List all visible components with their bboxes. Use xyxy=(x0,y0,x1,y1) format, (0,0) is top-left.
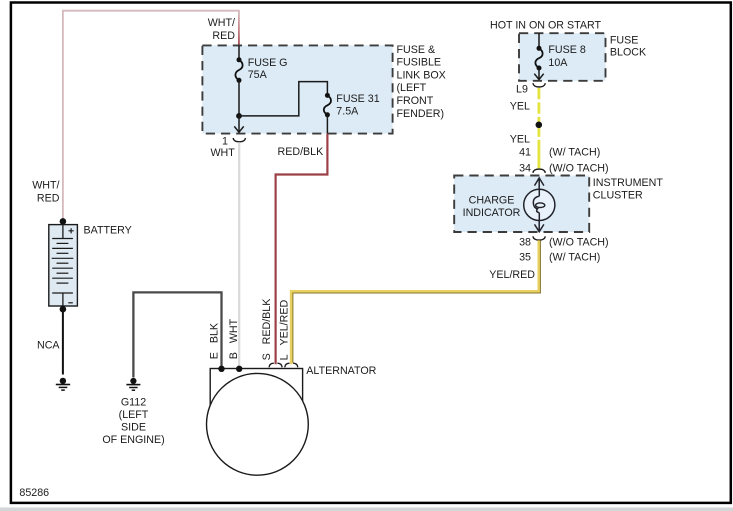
svg-text:35: 35 xyxy=(519,252,531,264)
label WHT/RED (battery) xyxy=(32,180,60,205)
svg-text:FUSE 31: FUSE 31 xyxy=(336,93,379,105)
svg-text:CHARGE: CHARGE xyxy=(469,194,515,206)
wire fuse 31 to box edge xyxy=(326,115,328,134)
svg-text:ALTERNATOR: ALTERNATOR xyxy=(306,365,376,377)
svg-text:BLOCK: BLOCK xyxy=(610,46,647,58)
svg-text:FUSE &: FUSE & xyxy=(397,44,436,56)
connector pin 38 cup xyxy=(533,236,545,240)
wire RED/BLK fuse 31 to alternator S xyxy=(276,134,328,365)
svg-text:LINK BOX: LINK BOX xyxy=(397,69,446,81)
ground symbol (battery) xyxy=(56,378,70,390)
svg-text:WHT: WHT xyxy=(210,147,235,159)
bottom gray strip xyxy=(0,508,733,511)
svg-text:RED: RED xyxy=(212,30,235,42)
label WHT/RED (top) xyxy=(208,17,236,42)
svg-text:INSTRUMENT: INSTRUMENT xyxy=(593,177,664,189)
connector L9 cup xyxy=(533,83,545,87)
svg-text:(W/ TACH): (W/ TACH) xyxy=(549,146,600,158)
wire G112 to alternator E xyxy=(133,292,221,377)
label INSTRUMENT CLUSTER xyxy=(593,177,664,202)
svg-text:OF ENGINE): OF ENGINE) xyxy=(102,434,164,446)
wire YEL splice to instrument cluster xyxy=(538,128,541,168)
terminal E node xyxy=(218,366,224,372)
svg-text:WHT/: WHT/ xyxy=(208,17,235,29)
svg-text:RED: RED xyxy=(37,192,60,204)
svg-text:75A: 75A xyxy=(248,69,268,81)
wire into fuse G xyxy=(238,46,240,60)
label CHARGE INDICATOR xyxy=(463,194,521,219)
svg-text:YEL: YEL xyxy=(510,101,530,113)
svg-text:L YEL/RED: L YEL/RED xyxy=(279,300,291,361)
junction node in fuse box xyxy=(236,113,242,119)
battery top node xyxy=(60,218,67,225)
svg-text:S RED/BLK: S RED/BLK xyxy=(261,298,273,361)
label FUSE G 75A xyxy=(248,57,288,81)
svg-text:41: 41 xyxy=(519,146,531,158)
wire YEL dashed L9 to splice xyxy=(538,88,541,122)
arrow into cluster (up) xyxy=(535,178,544,189)
svg-text:38: 38 xyxy=(519,237,531,249)
splice node on YEL xyxy=(536,122,543,129)
wire WHT/RED gradient segment entering fuse box xyxy=(238,12,240,46)
svg-text:85286: 85286 xyxy=(19,487,49,499)
svg-text:7.5A: 7.5A xyxy=(336,106,359,118)
instrument cluster box xyxy=(454,176,589,233)
label FUSE & FUSIBLE LINK BOX (LEFT FRONT FENDER) xyxy=(397,44,446,120)
arrow out of fuse block xyxy=(534,68,543,80)
svg-text:B WHT: B WHT xyxy=(228,318,240,359)
svg-text:(W/O TACH): (W/O TACH) xyxy=(549,237,609,249)
svg-text:FUSIBLE: FUSIBLE xyxy=(397,57,442,69)
svg-text:FRONT: FRONT xyxy=(397,95,434,107)
fuse G symbol xyxy=(235,57,242,83)
alternator rotor circle xyxy=(207,373,309,475)
svg-text:34: 34 xyxy=(519,162,531,174)
connector pin 1 cup xyxy=(233,138,245,142)
fuse & fusible link box xyxy=(202,45,392,133)
label FUSE BLOCK xyxy=(610,34,647,58)
svg-text:FUSE 8: FUSE 8 xyxy=(548,44,585,56)
svg-text:WHT/: WHT/ xyxy=(32,180,59,192)
wire WHT/RED battery to fuse box (pale pink) xyxy=(63,11,239,222)
label FUSE 8 10A xyxy=(548,44,585,69)
wire fuse G to junction xyxy=(238,80,240,116)
fuse 31 symbol xyxy=(324,93,331,117)
svg-text:1: 1 xyxy=(222,135,228,147)
svg-text:YEL: YEL xyxy=(510,134,530,146)
svg-text:RED/BLK: RED/BLK xyxy=(278,146,325,158)
svg-text:BATTERY: BATTERY xyxy=(84,224,132,236)
svg-text:L9: L9 xyxy=(516,84,528,96)
battery bottom node xyxy=(60,306,67,313)
wire junction to fuse 31 (step) xyxy=(239,82,327,116)
wire YEL/RED cluster to alternator L xyxy=(291,240,540,364)
svg-text:NCA: NCA xyxy=(37,339,60,351)
svg-text:HOT IN ON OR START: HOT IN ON OR START xyxy=(490,20,602,32)
label FUSE 31 7.5A xyxy=(336,93,379,118)
svg-text:(LEFT: (LEFT xyxy=(397,82,427,94)
svg-text:FUSE: FUSE xyxy=(610,34,639,46)
wire NCA battery to ground xyxy=(62,309,64,374)
svg-text:E BLK: E BLK xyxy=(209,322,221,359)
svg-text:10A: 10A xyxy=(548,57,568,69)
svg-text:CLUSTER: CLUSTER xyxy=(593,190,643,202)
fuse block box xyxy=(519,33,606,81)
svg-text:(W/O TACH): (W/O TACH) xyxy=(549,162,609,174)
connector pin 34 dome xyxy=(533,169,545,173)
ground symbol G112 xyxy=(126,378,140,390)
charge indicator lamp xyxy=(524,189,555,220)
svg-text:FENDER): FENDER) xyxy=(397,108,445,120)
wire WHT fuse box to alternator B xyxy=(238,142,240,368)
svg-text:(W/ TACH): (W/ TACH) xyxy=(549,252,600,264)
alternator case xyxy=(210,369,302,412)
svg-text:YEL/RED: YEL/RED xyxy=(489,269,535,281)
terminal B node xyxy=(236,366,242,372)
wire into fuse 8 xyxy=(538,33,540,48)
connector S flare xyxy=(269,363,282,367)
svg-text:G112: G112 xyxy=(121,396,146,408)
arrow out of fuse box pin 1 xyxy=(234,116,243,132)
arrow out of cluster (down) xyxy=(535,221,544,232)
connector L flare xyxy=(285,363,298,367)
svg-text:(LEFT: (LEFT xyxy=(119,409,149,421)
battery xyxy=(49,225,78,306)
svg-text:INDICATOR: INDICATOR xyxy=(463,207,521,219)
svg-text:SIDE: SIDE xyxy=(121,422,146,434)
svg-text:FUSE G: FUSE G xyxy=(248,57,288,69)
fuse 8 symbol xyxy=(535,46,542,71)
label G112 (LEFT SIDE OF ENGINE) xyxy=(102,396,164,446)
